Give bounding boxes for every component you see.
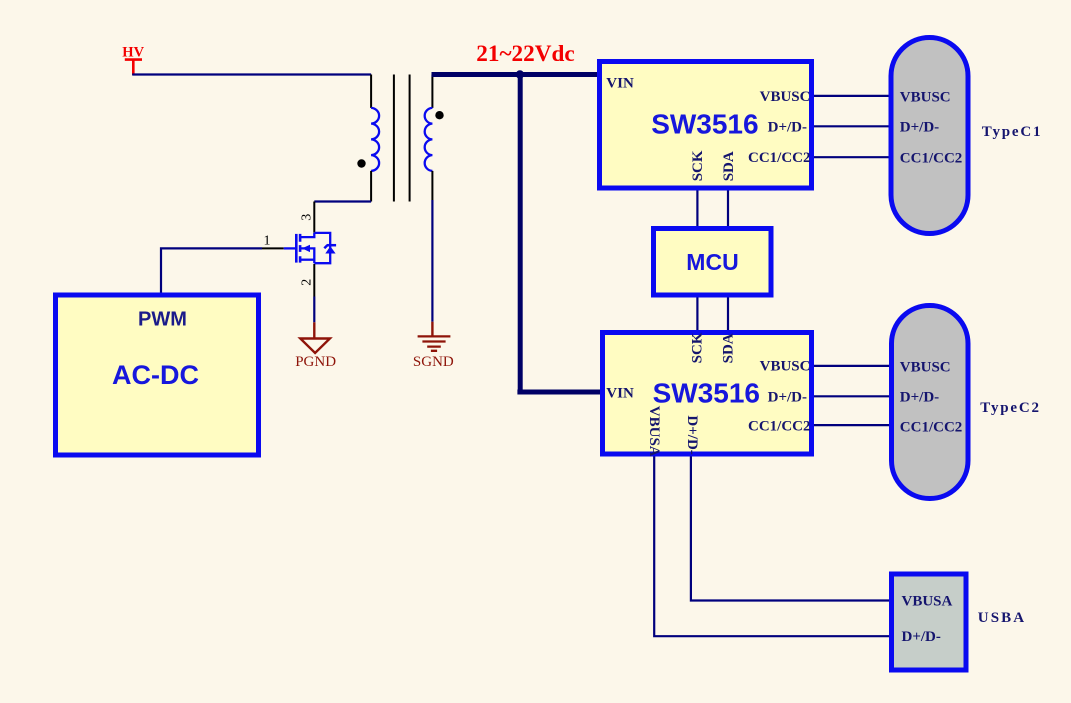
block U2 SW3516	[603, 333, 812, 455]
wire PWM to gate	[161, 248, 262, 292]
connector J3 USBA	[892, 574, 967, 670]
svg-text:D+/D-: D+/D-	[768, 390, 807, 406]
svg-text:VBUSC: VBUSC	[900, 89, 951, 105]
wire drain stub	[313, 202, 315, 233]
primary polarity dot	[357, 159, 365, 167]
svg-text:D+/D-: D+/D-	[900, 390, 939, 406]
wire U2 D+/D- to TypeC2	[814, 395, 889, 397]
wire primary bottom to mosfet drain	[314, 200, 371, 202]
svg-text:AC-DC: AC-DC	[112, 360, 199, 390]
svg-text:CC1/CC2: CC1/CC2	[748, 418, 811, 434]
svg-text:SDA: SDA	[721, 151, 737, 181]
wire SCK U1-MCU	[696, 191, 698, 227]
transistor Q1 nmos	[284, 233, 336, 263]
svg-text:D+/D-: D+/D-	[902, 629, 941, 645]
svg-text:TypeC2: TypeC2	[980, 400, 1041, 416]
wire U2 VBUSC to TypeC2	[814, 365, 889, 367]
wire U1 D+/D- to TypeC1	[814, 125, 889, 127]
svg-text:CC1/CC2: CC1/CC2	[748, 150, 811, 166]
primary lead bottom	[370, 171, 372, 202]
svg-text:VBUSC: VBUSC	[760, 359, 811, 375]
secondary winding	[425, 108, 433, 171]
secondary polarity dot	[435, 111, 443, 119]
block PWM AC-DC	[56, 295, 259, 455]
wire gate stub	[262, 247, 284, 249]
ground SGND	[413, 322, 454, 371]
connector J2 TypeC2	[892, 306, 969, 499]
primary lead top	[370, 75, 372, 108]
svg-text:21~22Vdc: 21~22Vdc	[476, 41, 574, 67]
svg-text:1: 1	[264, 234, 271, 249]
wire U2 CC1/CC2 to TypeC2	[814, 424, 889, 426]
wire U2 D+/D- pin to USBA	[691, 457, 889, 601]
wire U1 VBUSC to TypeC1	[814, 95, 889, 97]
svg-text:VIN: VIN	[606, 76, 634, 92]
power port HV	[122, 45, 144, 75]
svg-text:3: 3	[300, 214, 315, 221]
svg-text:CC1/CC2: CC1/CC2	[900, 151, 963, 167]
ground PGND	[295, 322, 336, 370]
svg-text:SCK: SCK	[690, 150, 706, 181]
junction node	[516, 70, 524, 78]
wire secondary bottom to SGND	[431, 171, 433, 200]
primary winding	[371, 108, 379, 171]
svg-text:MCU: MCU	[686, 249, 738, 275]
wire source to PGND	[313, 297, 315, 323]
wire SDA U1-MCU	[727, 191, 729, 227]
svg-text:D+/D-: D+/D-	[768, 120, 807, 136]
svg-text:TypeC1: TypeC1	[982, 124, 1043, 140]
svg-text:PWM: PWM	[138, 308, 187, 330]
wire SDA MCU-U2	[727, 298, 729, 331]
svg-text:VBUSC: VBUSC	[900, 360, 951, 376]
wire U1 CC1/CC2 to TypeC1	[814, 156, 889, 158]
svg-text:PGND: PGND	[295, 354, 336, 370]
svg-text:USBA: USBA	[978, 610, 1026, 626]
wire SCK MCU-U2	[696, 298, 698, 331]
svg-text:CC1/CC2: CC1/CC2	[900, 420, 963, 436]
svg-text:SGND: SGND	[413, 354, 454, 370]
svg-text:VBUSA: VBUSA	[902, 594, 953, 610]
svg-text:D+/D-: D+/D-	[900, 120, 939, 136]
svg-text:SW3516: SW3516	[651, 108, 758, 139]
wire source stub	[313, 264, 315, 297]
svg-text:D+/D-: D+/D-	[684, 415, 700, 454]
block U3 MCU	[654, 229, 772, 296]
core line left	[393, 75, 395, 202]
svg-text:SDA: SDA	[720, 333, 736, 363]
block U1 SW3516	[600, 62, 812, 189]
wire HV to transformer primary	[132, 73, 371, 75]
bus wire VBUS thick	[432, 72, 602, 392]
svg-text:SCK: SCK	[689, 332, 705, 363]
svg-text:VBUSA: VBUSA	[646, 406, 662, 457]
wire U2 VBUSA pin to USBA	[654, 457, 889, 637]
svg-text:2: 2	[300, 279, 315, 286]
svg-text:SW3516: SW3516	[653, 378, 760, 409]
core line right	[409, 75, 411, 202]
secondary lead top	[431, 75, 433, 108]
connector J1 TypeC1	[891, 38, 968, 234]
svg-text:VIN: VIN	[606, 385, 634, 401]
svg-text:HV: HV	[122, 45, 144, 61]
svg-text:VBUSC: VBUSC	[760, 89, 811, 105]
transformer T1	[357, 75, 443, 202]
